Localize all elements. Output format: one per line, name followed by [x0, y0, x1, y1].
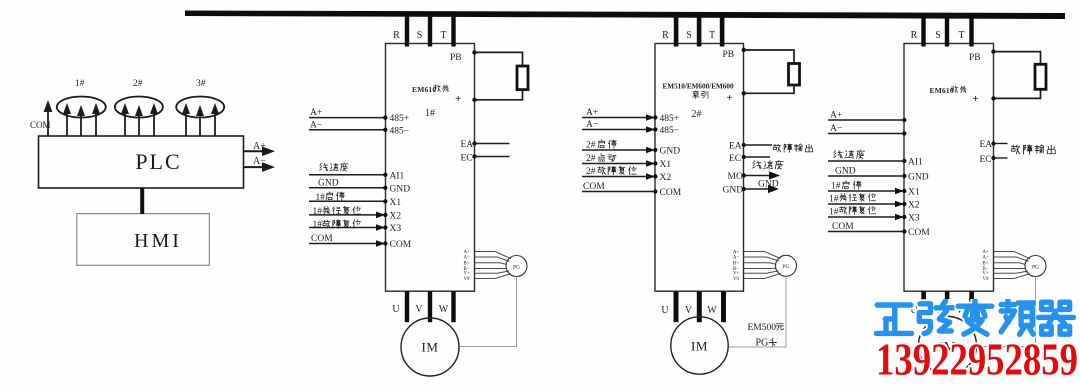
svg-text:AI1: AI1	[908, 158, 923, 168]
U3 input bars R S T	[911, 14, 974, 47]
svg-text:MO: MO	[728, 172, 743, 182]
wire EA stub	[744, 144, 772, 146]
wire 1# fault reset to U3 X3	[828, 206, 904, 220]
svg-text:PB: PB	[969, 53, 981, 63]
svg-text:EM610: EM610	[930, 86, 954, 95]
svg-text:EC: EC	[729, 154, 741, 164]
svg-text:X1: X1	[390, 198, 402, 208]
label EM500 no PG card	[748, 323, 784, 349]
svg-text:S: S	[935, 30, 941, 41]
svg-text:A+: A+	[253, 141, 266, 152]
braking resistor RB2	[744, 50, 800, 93]
svg-text:+: +	[455, 93, 461, 105]
svg-text:IM: IM	[691, 339, 708, 354]
U2 pin GND with GND output wire	[723, 180, 780, 196]
svg-text:V+: V+	[983, 272, 989, 277]
label fault output U2	[773, 144, 813, 153]
wire COM to U1 COM	[309, 234, 385, 247]
wire A+ to U2 485+	[582, 108, 655, 121]
U2 output bars U V W	[661, 291, 726, 322]
wire A+ to U1 485+	[309, 108, 385, 118]
svg-text:COM: COM	[30, 120, 51, 130]
svg-text:A−: A−	[983, 256, 989, 261]
svg-text:A−: A−	[310, 121, 322, 131]
svg-text:B+: B+	[464, 261, 470, 266]
U2 pins EA EC	[729, 142, 746, 165]
svg-text:EA: EA	[729, 142, 742, 152]
svg-text:GND: GND	[908, 173, 929, 183]
U3 output bars U V W	[910, 291, 974, 322]
power bus (three-phase supply rail)	[185, 11, 1065, 20]
svg-text:2#: 2#	[586, 167, 596, 177]
U2 encoder pins	[733, 250, 739, 282]
U2 input bars R S T	[662, 14, 724, 47]
wire GND to U3 GND	[828, 167, 904, 177]
U3 pin +	[973, 93, 996, 105]
svg-text:X1: X1	[908, 188, 920, 198]
svg-text:HMI: HMI	[134, 230, 182, 252]
motor M1 IM	[401, 318, 459, 376]
svg-text:GND: GND	[318, 178, 339, 188]
svg-text:485−: 485−	[660, 126, 680, 136]
svg-text:EC: EC	[980, 155, 992, 165]
svg-text:GND: GND	[390, 184, 411, 194]
svg-text:A−: A−	[464, 256, 470, 261]
svg-text:13922952859: 13922952859	[876, 335, 1078, 385]
PLC block	[39, 136, 244, 188]
net A+ output of PLC	[244, 141, 275, 156]
svg-text:GND: GND	[835, 167, 856, 177]
svg-text:A−: A−	[830, 124, 842, 134]
svg-text:V0: V0	[464, 277, 470, 282]
svg-text:1#: 1#	[425, 108, 435, 119]
PLC output arrow group 1#	[57, 79, 106, 136]
PLC output arrow group 2#	[115, 79, 163, 136]
svg-text:2#: 2#	[692, 109, 702, 120]
svg-text:COM: COM	[583, 182, 605, 192]
U2 pin PB	[723, 48, 747, 60]
node COM output arrow of PLC	[30, 100, 52, 136]
svg-text:+: +	[973, 93, 979, 105]
wires U3 to encoder PG3	[994, 252, 1031, 279]
svg-text:COM: COM	[311, 234, 333, 244]
U2 pin +	[727, 91, 747, 104]
wire A- to U1 485-	[309, 121, 385, 131]
label fault output U3	[1011, 145, 1055, 155]
U3 pin PB	[969, 49, 996, 63]
wire line-speed to U1 AI1	[309, 163, 385, 175]
svg-text:1#: 1#	[316, 193, 326, 203]
svg-text:A+: A+	[830, 111, 842, 121]
U2 left terminals	[653, 114, 682, 198]
wire EA stub	[994, 143, 1008, 145]
svg-text:EA: EA	[980, 140, 993, 150]
svg-text:T: T	[440, 30, 446, 41]
wire 1# diameter reset to U1 X2	[309, 206, 385, 218]
svg-text:PG: PG	[513, 264, 520, 270]
svg-text:COM: COM	[832, 222, 854, 232]
wire EA stub	[475, 143, 510, 145]
U1 input bars R S T	[393, 14, 456, 47]
U1 pins EA EC	[461, 140, 477, 164]
svg-text:GND: GND	[723, 186, 744, 196]
svg-text:B+: B+	[983, 261, 989, 266]
svg-text:COM: COM	[660, 188, 682, 198]
U1 pin PB	[450, 50, 477, 63]
motor M3 IM	[919, 317, 977, 375]
svg-text:1#: 1#	[831, 182, 841, 192]
braking resistor RB3	[994, 52, 1047, 99]
svg-text:EM510/EM600/EM600: EM510/EM600/EM600	[663, 83, 734, 91]
svg-text:T: T	[709, 30, 715, 41]
svg-text:1#: 1#	[313, 220, 323, 230]
wire GND to U1 GND	[309, 178, 385, 188]
encoder PG1	[506, 256, 527, 277]
wire PG3 to motor M3	[977, 277, 1036, 347]
svg-text:COM: COM	[908, 228, 930, 238]
svg-text:A−: A−	[733, 256, 739, 261]
svg-text:2#: 2#	[586, 154, 596, 164]
svg-text:A+: A+	[310, 108, 322, 118]
watermark blue brand text (5 CJK glyphs with white halo)	[876, 300, 1073, 334]
encoder PG2	[776, 255, 797, 276]
wire line-speed to U3 AI1	[828, 150, 904, 161]
motor M2 IM	[671, 317, 728, 374]
svg-text:X1: X1	[660, 160, 672, 170]
wire EC stub	[744, 156, 770, 158]
U1 left terminals AI1 GND X1 X2 X3 COM	[383, 171, 412, 250]
watermark red phone number	[876, 335, 1078, 385]
wire A+ into U3	[828, 111, 907, 123]
svg-text:U: U	[392, 304, 400, 315]
wire A- into U3	[828, 124, 907, 136]
svg-text:V+: V+	[464, 272, 470, 277]
wire 2# jog to U2 X1	[582, 154, 655, 167]
svg-text:S: S	[686, 30, 692, 41]
svg-text:R: R	[911, 30, 918, 41]
svg-text:A+: A+	[983, 250, 989, 255]
svg-text:1#: 1#	[829, 195, 839, 205]
svg-text:X3: X3	[390, 224, 402, 234]
svg-text:AI1: AI1	[390, 171, 405, 181]
svg-text:V+: V+	[733, 272, 739, 277]
svg-text:A−: A−	[253, 156, 266, 167]
encoder PG3	[1025, 256, 1046, 277]
svg-text:1#: 1#	[75, 79, 85, 89]
wire A- to U2 485-	[582, 120, 655, 133]
svg-text:EA: EA	[461, 140, 474, 150]
U1 encoder pins A+ A- B+ B- V+ V0	[464, 250, 470, 282]
svg-text:485+: 485+	[390, 114, 410, 124]
svg-text:+: +	[727, 92, 733, 104]
svg-text:PB: PB	[450, 53, 462, 63]
wires U1 to encoder PG1	[475, 252, 512, 279]
wire 1# diameter reset to U3 X2	[828, 193, 904, 207]
svg-text:A+: A+	[586, 108, 598, 118]
svg-text:V0: V0	[983, 277, 989, 282]
wire PLC to HMI	[140, 188, 144, 214]
svg-text:X2: X2	[660, 173, 672, 183]
inverter U1 EM610 unwind box	[386, 44, 475, 292]
svg-text:2#: 2#	[586, 141, 596, 151]
wire 2# run/stop to U2 GND	[582, 140, 655, 153]
svg-text:T: T	[958, 30, 964, 41]
svg-text:U: U	[661, 305, 669, 316]
inverter U2 EM510/EM600 traction box	[655, 44, 744, 292]
svg-text:X3: X3	[908, 214, 920, 224]
svg-text:PB: PB	[723, 50, 735, 60]
wire COM to U3 COM	[828, 222, 904, 232]
braking resistor RB1	[475, 52, 529, 99]
svg-text:1#: 1#	[313, 207, 323, 217]
svg-text:X2: X2	[908, 201, 920, 211]
wire COM to U2 COM	[582, 182, 655, 192]
svg-text:A+: A+	[733, 250, 739, 255]
HMI block	[77, 214, 210, 266]
wire EC stub	[994, 157, 1008, 159]
svg-text:EC: EC	[461, 154, 473, 164]
svg-text:485+: 485+	[660, 114, 680, 124]
U3 pins EA EC	[980, 140, 996, 165]
svg-text:COM: COM	[390, 240, 412, 250]
svg-text:R: R	[393, 30, 400, 41]
svg-text:EM500: EM500	[748, 323, 777, 333]
wire EC stub	[475, 156, 510, 158]
svg-text:1#: 1#	[829, 208, 839, 218]
U1 left terminals 485+/485-	[383, 114, 409, 136]
wire 2# fault reset to U2 X2	[582, 166, 655, 180]
svg-text:GND: GND	[758, 180, 779, 190]
svg-text:V: V	[685, 305, 693, 316]
U1 pin +	[455, 93, 477, 105]
PLC output arrow group 3#	[176, 79, 224, 136]
svg-text:R: R	[662, 30, 669, 41]
wire 1# run/stop to U1 X1	[309, 192, 385, 203]
inverter U3 EM610 rewind box	[904, 44, 994, 292]
svg-text:A−: A−	[586, 120, 598, 130]
svg-text:PG: PG	[1032, 264, 1039, 270]
U1 output bars U V W	[392, 291, 455, 322]
wires U2 to encoder PG2	[744, 252, 781, 279]
U3 left terminals	[902, 158, 930, 239]
svg-text:V: V	[415, 304, 423, 315]
svg-text:IM: IM	[422, 340, 439, 355]
U3 encoder pins	[983, 250, 989, 282]
svg-text:S: S	[417, 30, 423, 41]
wire PG2 to motor M2	[728, 276, 786, 347]
svg-text:X2: X2	[390, 212, 402, 222]
svg-text:PG: PG	[782, 264, 789, 270]
svg-text:PLC: PLC	[135, 149, 181, 174]
svg-text:W: W	[439, 304, 449, 315]
svg-text:485−: 485−	[390, 126, 410, 136]
svg-text:V0: V0	[733, 277, 739, 282]
svg-text:B+: B+	[733, 261, 739, 266]
wire PG1 to motor M1	[459, 277, 516, 347]
svg-text:W: W	[707, 305, 717, 316]
svg-text:EM610: EM610	[412, 85, 436, 94]
svg-text:GND: GND	[660, 147, 681, 157]
U2 pin MO with line-speed output wire	[728, 160, 784, 182]
wire 1# run/stop to U3 X1	[828, 181, 904, 194]
svg-text:2#: 2#	[133, 79, 143, 89]
svg-text:3#: 3#	[196, 79, 206, 89]
svg-text:PG: PG	[756, 338, 769, 349]
wire 1# fault reset to U1 X3	[309, 220, 385, 231]
svg-text:A+: A+	[464, 250, 470, 255]
net A- output of PLC	[244, 156, 275, 172]
